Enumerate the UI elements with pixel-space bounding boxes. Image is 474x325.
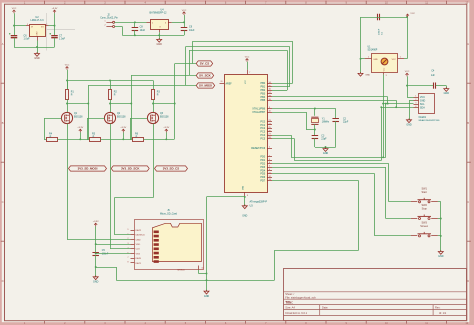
svg-text:7: 7 <box>249 72 250 74</box>
svg-text:Conn_01x02_Pin: Conn_01x02_Pin <box>100 17 118 19</box>
svg-text:SD1490P: SD1490P <box>368 50 378 52</box>
svg-text:1.0uF: 1.0uF <box>24 38 31 41</box>
svg-text:GND: GND <box>438 255 444 258</box>
svg-text:2: 2 <box>105 25 106 27</box>
svg-text:Stop: Stop <box>422 208 428 211</box>
svg-text:VCC: VCC <box>392 59 397 61</box>
svg-text:100nF: 100nF <box>378 28 380 35</box>
svg-text:+3.3V: +3.3V <box>52 8 58 10</box>
svg-text:8: 8 <box>247 195 248 197</box>
svg-text:RESET/PC6: RESET/PC6 <box>251 147 266 150</box>
svg-text:C: C <box>2 200 4 204</box>
svg-text:+3.3V: +3.3V <box>93 221 99 223</box>
svg-text:CLK: CLK <box>136 249 141 251</box>
svg-text:VDD: VDD <box>136 244 141 246</box>
svg-text:GND: GND <box>323 152 329 155</box>
svg-text:AREF: AREF <box>226 82 233 85</box>
svg-text:Screen: Screen <box>420 225 429 228</box>
svg-text:1: 1 <box>105 20 106 22</box>
svg-text:+3.3V: +3.3V <box>163 127 169 129</box>
svg-text:10: 10 <box>202 268 204 270</box>
svg-text:Micro_SD_Card: Micro_SD_Card <box>160 212 178 215</box>
svg-text:C: C <box>467 200 469 204</box>
svg-text:20: 20 <box>221 81 223 83</box>
svg-text:Size: A4: Size: A4 <box>285 306 295 310</box>
svg-text:+3.3V: +3.3V <box>77 127 83 129</box>
svg-text:PC5: PC5 <box>260 137 265 140</box>
svg-text:2: 2 <box>46 24 47 26</box>
svg-text:DAT0: DAT0 <box>136 257 142 260</box>
svg-text:ATmega328P-P: ATmega328P-P <box>250 201 268 204</box>
svg-text:3V3_SD_MOSI: 3V3_SD_MOSI <box>78 167 98 171</box>
svg-text:3: 3 <box>415 103 416 105</box>
svg-text:7: 7 <box>128 257 129 259</box>
svg-text:4: 4 <box>415 106 416 108</box>
svg-text:22pF: 22pF <box>343 122 349 124</box>
svg-text:B: B <box>2 121 4 125</box>
svg-text:A: A <box>2 42 4 46</box>
svg-text:GND: GND <box>34 57 40 60</box>
svg-text:SHIELD: SHIELD <box>177 269 185 271</box>
svg-text:Vout: Vout <box>382 67 385 71</box>
svg-text:LM1117-3.3: LM1117-3.3 <box>31 19 45 22</box>
svg-text:Start: Start <box>422 191 428 194</box>
svg-text:+3.3V: +3.3V <box>120 127 126 129</box>
svg-text:3: 3 <box>386 75 387 77</box>
svg-text:VCC: VCC <box>245 57 250 59</box>
svg-text:SDA: SDA <box>420 106 425 109</box>
svg-text:GND: GND <box>406 123 412 126</box>
svg-text:PD7: PD7 <box>260 180 265 183</box>
svg-text:10uF: 10uF <box>140 29 146 32</box>
svg-text:WEA012864DWPP3N0: WEA012864DWPP3N0 <box>419 119 441 122</box>
svg-text:BSS138: BSS138 <box>117 117 126 119</box>
svg-text:16MHz: 16MHz <box>322 122 330 124</box>
svg-text:BSS138: BSS138 <box>74 117 83 119</box>
svg-text:XTAL2/PB7: XTAL2/PB7 <box>252 111 265 114</box>
svg-text:9: 9 <box>128 229 129 231</box>
svg-text:KiCad E.D.A. 9.0.1: KiCad E.D.A. 9.0.1 <box>285 311 307 315</box>
svg-text:VCC: VCC <box>12 8 17 10</box>
svg-text:A: A <box>467 42 469 46</box>
svg-text:VCC: VCC <box>245 79 247 84</box>
svg-text:1uF: 1uF <box>431 75 436 77</box>
svg-text:DAT2: DAT2 <box>136 229 142 232</box>
svg-text:B: B <box>467 121 469 125</box>
svg-text:VCC: VCC <box>65 65 70 67</box>
svg-text:DAT1: DAT1 <box>136 262 142 265</box>
svg-text:SV_SCK: SV_SCK <box>199 74 211 78</box>
svg-text:1: 1 <box>415 96 416 98</box>
svg-text:D: D <box>467 279 469 283</box>
svg-text:3V3_SD_CS: 3V3_SD_CS <box>163 167 179 171</box>
svg-text:Date:: Date: <box>322 306 328 310</box>
svg-text:Id: 1/1: Id: 1/1 <box>439 311 447 315</box>
svg-text:GND: GND <box>365 75 370 77</box>
svg-text:2: 2 <box>415 99 416 101</box>
svg-text:22pF: 22pF <box>321 139 327 141</box>
svg-text:1.0uF: 1.0uF <box>59 38 66 41</box>
svg-text:CMD: CMD <box>136 239 141 241</box>
svg-text:10uF: 10uF <box>189 29 195 32</box>
svg-text:100nF: 100nF <box>102 254 109 256</box>
svg-text:GND: GND <box>373 59 378 61</box>
svg-text:Title:: Title: <box>285 301 293 305</box>
svg-text:8: 8 <box>128 262 129 264</box>
svg-text:GND: GND <box>444 92 450 95</box>
svg-text:File: statslogger.kicad_sch: File: statslogger.kicad_sch <box>285 295 316 299</box>
svg-text:BA78M05FP-12: BA78M05FP-12 <box>149 12 167 15</box>
svg-text:SV_MOSI: SV_MOSI <box>199 84 212 88</box>
svg-text:VCC: VCC <box>405 71 410 73</box>
svg-text:PB5: PB5 <box>260 99 265 102</box>
svg-text:2: 2 <box>368 56 369 58</box>
svg-text:GND: GND <box>93 280 99 283</box>
svg-text:GND: GND <box>243 185 245 190</box>
svg-text:VCC: VCC <box>410 13 415 15</box>
svg-text:3V3_SD_SCK: 3V3_SD_SCK <box>121 167 140 171</box>
svg-text:D: D <box>2 279 4 283</box>
svg-text:3: 3 <box>27 24 28 26</box>
svg-text:GND: GND <box>242 216 247 218</box>
svg-text:VSS: VSS <box>136 253 141 255</box>
svg-text:VO: VO <box>41 27 44 29</box>
svg-text:GND: GND <box>204 295 210 298</box>
svg-text:BSS138: BSS138 <box>160 117 169 119</box>
svg-text:Rev:: Rev: <box>435 306 441 310</box>
svg-text:GND: GND <box>37 31 39 36</box>
svg-text:SV_CS: SV_CS <box>200 62 210 66</box>
svg-text:DAT3/CD: DAT3/CD <box>136 234 146 237</box>
svg-text:OLED1: OLED1 <box>419 117 427 119</box>
svg-text:GND: GND <box>157 43 163 46</box>
svg-text:VCC: VCC <box>182 10 187 12</box>
svg-text:1: 1 <box>400 56 401 58</box>
